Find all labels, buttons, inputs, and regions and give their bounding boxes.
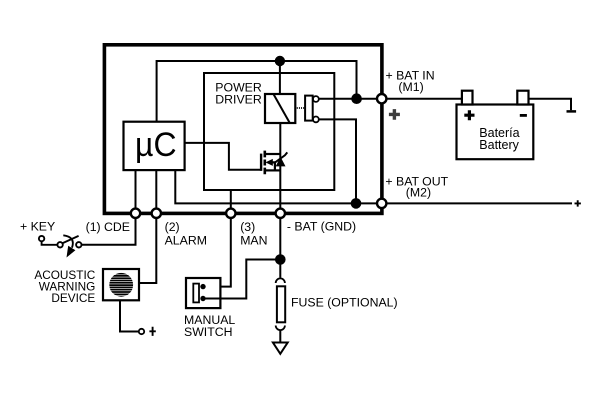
label (1) CDE: [86, 220, 130, 234]
junction dot BAT IN: [351, 93, 362, 104]
svg-text:+ KEY: + KEY: [20, 220, 55, 234]
node + for speaker: [139, 327, 156, 336]
wire: speaker to + supply: [120, 300, 139, 331]
relay contact K1: [305, 96, 319, 123]
wire: driver block to terminal 3: [230, 190, 232, 213]
svg-text:(M1): (M1): [398, 80, 423, 94]
chassis ground arrow: [273, 343, 288, 354]
wire: top dot down to driver square: [279, 61, 281, 94]
svg-text:SWITCH: SWITCH: [184, 325, 233, 339]
battery BT1: [457, 91, 534, 160]
junction dot on top wire: [275, 56, 285, 66]
acoustic warning device LS1: [103, 269, 139, 300]
svg-text:(1) CDE: (1) CDE: [86, 220, 130, 234]
wire: uC pin to BAT OUT row and out to plus: [175, 170, 572, 203]
wire: terminal 2 to acoustic device: [139, 213, 156, 283]
uC U1: [124, 122, 185, 170]
label MANUAL SWITCH: [184, 313, 235, 339]
wire: contact to BAT IN terminal and battery: [319, 98, 462, 100]
wire: battery negative to chassis ground: [529, 99, 572, 111]
wire: uC pin1 to terminal 1: [135, 170, 137, 213]
ECU main box: [104, 45, 382, 214]
key switch S1: [39, 235, 82, 257]
svg-text:- BAT (GND): - BAT (GND): [287, 220, 356, 234]
svg-text:µC: µC: [135, 126, 177, 164]
wire: uC gate drive to MOSFET: [185, 143, 261, 170]
label (3) MAN: [240, 220, 267, 247]
svg-text:ALARM: ALARM: [165, 233, 207, 247]
transistor Q1 MOSFET: [261, 151, 280, 175]
wire: contact lower to BAT OUT junction: [319, 119, 356, 203]
zener body diode of Q1: [275, 152, 287, 166]
wire: vertical drain/output line down to fuse: [279, 123, 281, 278]
dotted mechanical link driver to contact: [297, 107, 305, 109]
terminal 4 -BAT GND: [276, 209, 285, 218]
label + BAT IN (M1): [386, 68, 435, 94]
terminal 2 ALARM: [152, 209, 161, 218]
svg-text:(3): (3): [240, 220, 255, 234]
power driver block U2: [204, 73, 334, 190]
svg-text:Battery: Battery: [479, 138, 519, 152]
wire: manual switch lower contact to GND line: [203, 260, 280, 299]
svg-text:MAN: MAN: [240, 233, 267, 247]
manual switch S2: [186, 278, 220, 308]
svg-text:(M2): (M2): [406, 185, 431, 199]
label FUSE (OPTIONAL): [291, 295, 398, 309]
wire: terminal 1 to key switch: [82, 213, 136, 245]
label + BAT OUT (M2): [385, 174, 448, 199]
wire: terminal 3 to manual switch: [203, 213, 231, 286]
wire: uC pin2 to terminal 2: [155, 170, 157, 213]
svg-text:DRIVER: DRIVER: [215, 92, 262, 106]
svg-text:(2): (2): [165, 220, 180, 234]
wire: fuse to chassis ground: [279, 330, 281, 342]
terminal M1 BAT IN: [377, 94, 386, 103]
node + at BAT OUT wire end: [575, 200, 581, 206]
fuse F1: [276, 278, 285, 330]
terminal 3 MAN: [226, 209, 235, 218]
svg-text:DEVICE: DEVICE: [51, 291, 95, 305]
terminal M2 BAT OUT: [377, 199, 386, 208]
label - BAT (GND): [287, 220, 356, 234]
label + KEY: [20, 220, 55, 234]
chassis ground bar at battery: [567, 110, 577, 113]
label ACOUSTIC WARNING DEVICE: [34, 268, 95, 305]
junction dot BAT OUT: [351, 198, 362, 209]
driver amplifier square with diagonal: [265, 94, 295, 123]
label (2) ALARM: [165, 220, 207, 247]
wire: top supply from uC to BAT IN junction: [157, 61, 357, 122]
svg-text:FUSE (OPTIONAL): FUSE (OPTIONAL): [291, 295, 398, 309]
bold plus marker at BAT IN: [389, 109, 400, 120]
junction dot GND/fuse: [275, 254, 286, 265]
terminal 1 CDE: [131, 209, 140, 218]
